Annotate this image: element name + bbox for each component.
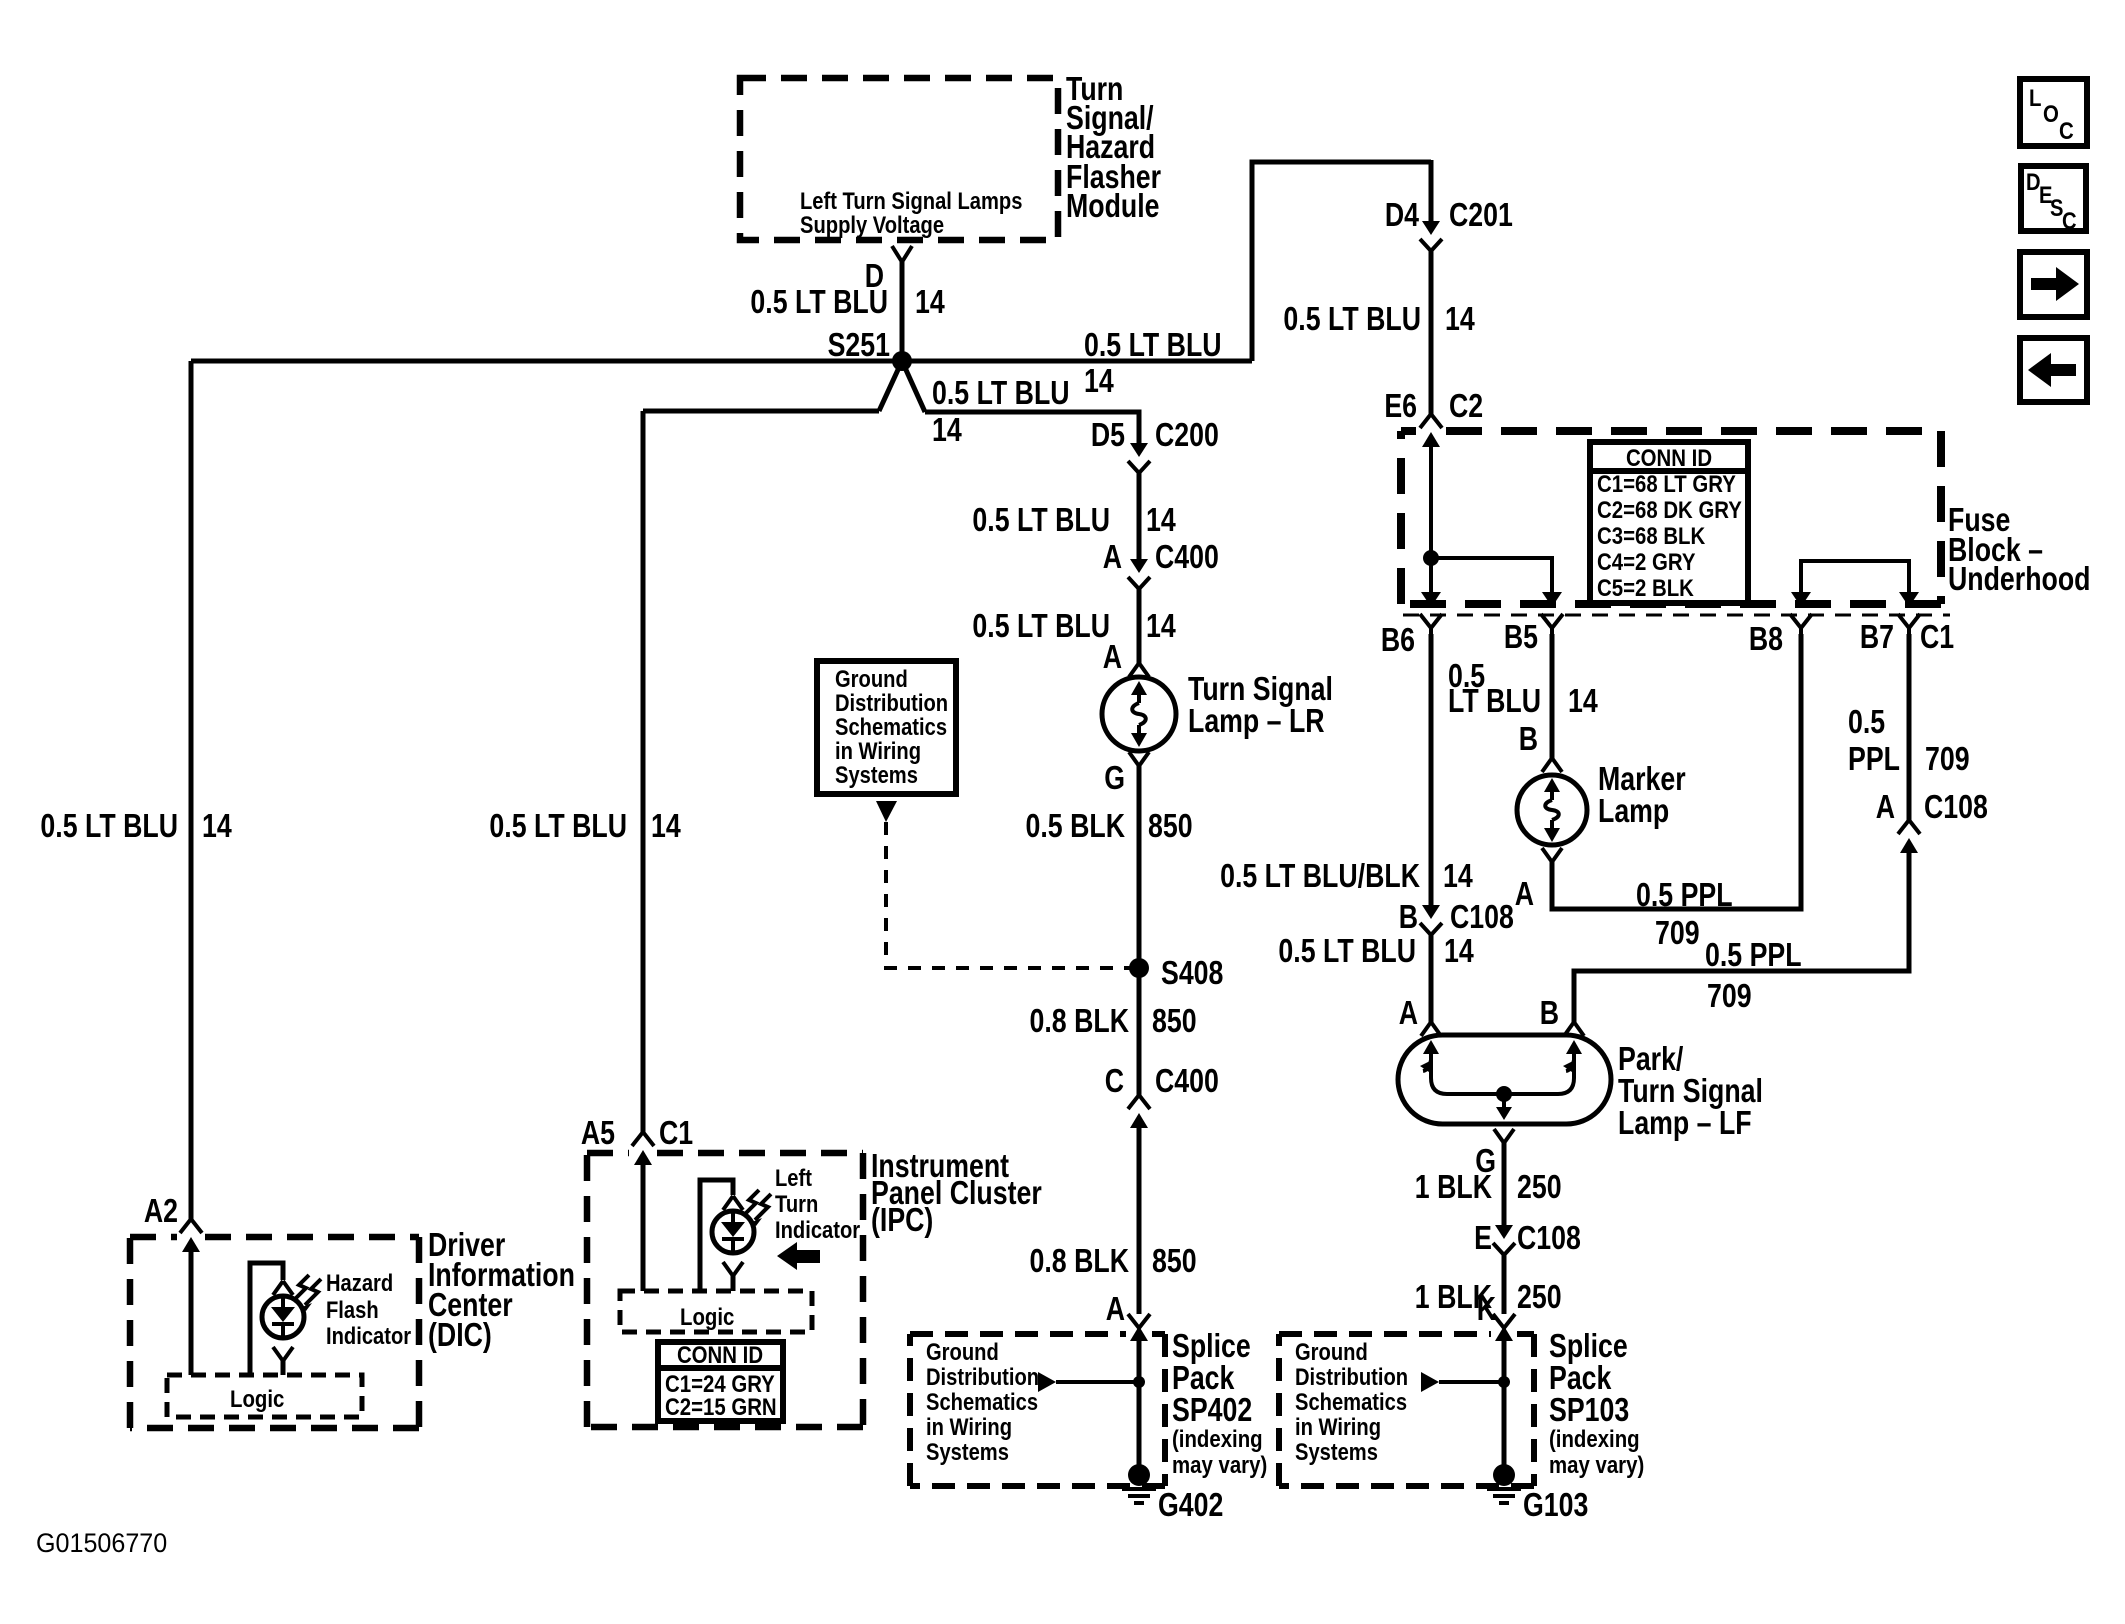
svg-text:G01506770: G01506770 <box>36 1527 167 1558</box>
svg-text:250: 250 <box>1517 1279 1562 1315</box>
svg-text:0.5 LT BLU/BLK: 0.5 LT BLU/BLK <box>1220 858 1420 894</box>
svg-text:B: B <box>1519 721 1538 757</box>
navigation icon LOC <box>2020 79 2087 146</box>
pin B5 chevron and label <box>1504 614 1563 656</box>
wire S251 right value label <box>1084 327 1222 399</box>
svg-text:SP402: SP402 <box>1172 1392 1252 1428</box>
svg-text:709: 709 <box>1925 741 1970 777</box>
svg-text:B6: B6 <box>1381 622 1415 658</box>
svg-text:Indicator: Indicator <box>775 1216 860 1243</box>
pin D of flasher module <box>865 246 912 295</box>
fuse block pin B7 exit arrow <box>1899 592 1919 607</box>
svg-text:G402: G402 <box>1158 1487 1223 1523</box>
DIC logic box <box>167 1375 362 1417</box>
svg-text:1 BLK: 1 BLK <box>1415 1169 1492 1205</box>
svg-text:C4=2 GRY: C4=2 GRY <box>1597 548 1696 575</box>
wire down to connector C201 <box>1429 160 1434 221</box>
svg-text:C: C <box>2062 207 2077 234</box>
wire C108A-parklamp value label <box>1705 937 1802 1014</box>
svg-text:Indicator: Indicator <box>326 1322 411 1349</box>
svg-text:Module: Module <box>1066 188 1160 224</box>
svg-text:C2=15 GRN: C2=15 GRN <box>665 1393 777 1420</box>
svg-text:A: A <box>1876 789 1895 825</box>
svg-text:Distribution: Distribution <box>926 1363 1039 1390</box>
svg-text:0.5 LT BLU: 0.5 LT BLU <box>750 284 888 320</box>
wire left vertical (to DIC A2) <box>189 361 194 1220</box>
svg-text:Turn Signal: Turn Signal <box>1188 671 1333 707</box>
svg-text:14: 14 <box>1445 301 1475 337</box>
splice pack SP103 pin K <box>1477 1291 1515 1341</box>
svg-text:14: 14 <box>1146 502 1176 538</box>
turn signal lamp LR <box>1102 677 1176 751</box>
svg-text:G: G <box>1104 760 1125 796</box>
turn signal / hazard flasher module box <box>740 78 1058 240</box>
left turn indicator lamp (IPC) <box>700 1180 771 1291</box>
svg-text:14: 14 <box>1146 608 1176 644</box>
svg-text:B: B <box>1540 995 1559 1031</box>
svg-text:B5: B5 <box>1504 619 1538 655</box>
wire value label <box>1026 808 1193 844</box>
wire C400 to turn signal lamp (0.5 LT BLU 14) <box>1137 589 1142 663</box>
left turn indicator label <box>775 1164 860 1243</box>
svg-text:Ground: Ground <box>1295 1338 1368 1365</box>
svg-text:S408: S408 <box>1161 955 1223 991</box>
ground distribution schematics box (mid) <box>817 661 956 794</box>
svg-text:0.5: 0.5 <box>1848 704 1885 740</box>
wire marker lamp A to B8 (0.5 PPL 709) <box>1552 634 1801 909</box>
svg-text:0.5 LT BLU: 0.5 LT BLU <box>40 808 178 844</box>
svg-text:A: A <box>1103 539 1122 575</box>
svg-text:(DIC): (DIC) <box>428 1317 492 1353</box>
wire marker-B8 value label <box>1636 877 1733 951</box>
fuse block internal wire to B5 <box>1431 558 1552 594</box>
svg-text:Turn Signal: Turn Signal <box>1618 1073 1763 1109</box>
turn signal lamp LR pin A <box>1103 639 1149 677</box>
svg-text:C1: C1 <box>659 1115 693 1151</box>
svg-text:0.5 PPL: 0.5 PPL <box>1705 937 1802 973</box>
svg-text:may vary): may vary) <box>1172 1451 1267 1478</box>
svg-text:14: 14 <box>915 284 945 320</box>
wire G to connector C108-E (1 BLK 250) <box>1502 1143 1507 1225</box>
svg-text:Systems: Systems <box>835 761 918 788</box>
svg-text:14: 14 <box>1444 933 1474 969</box>
wire C108-B to park lamp pin A (0.5 LT BLU 14) <box>1429 935 1434 1022</box>
marker lamp <box>1517 775 1587 845</box>
svg-text:LT BLU: LT BLU <box>1448 683 1541 719</box>
svg-text:250: 250 <box>1517 1169 1562 1205</box>
svg-text:Systems: Systems <box>1295 1438 1378 1465</box>
svg-text:C200: C200 <box>1155 417 1219 453</box>
svg-text:C5=2 BLK: C5=2 BLK <box>1597 574 1694 601</box>
svg-text:A: A <box>1103 639 1122 675</box>
navigation icon arrow right <box>2020 252 2087 317</box>
hazard flash indicator label <box>326 1269 411 1349</box>
wire value label <box>972 608 1176 644</box>
marker lamp pin A <box>1515 848 1562 913</box>
svg-text:0.5 LT BLU: 0.5 LT BLU <box>932 375 1070 411</box>
svg-text:Pack: Pack <box>1549 1360 1612 1396</box>
svg-text:Supply Voltage: Supply Voltage <box>800 211 944 238</box>
wire D (0.5 LT BLU 14) <box>900 261 905 361</box>
svg-text:B: B <box>1399 899 1418 935</box>
svg-text:14: 14 <box>651 808 681 844</box>
wire C200 to C400 (0.5 LT BLU 14) <box>1137 473 1142 559</box>
svg-text:C1: C1 <box>1920 619 1954 655</box>
svg-text:Splice: Splice <box>1549 1328 1628 1364</box>
svg-text:O: O <box>2043 100 2059 127</box>
svg-text:Underhood: Underhood <box>1948 561 2090 597</box>
svg-text:D5: D5 <box>1091 417 1125 453</box>
svg-text:Lamp – LR: Lamp – LR <box>1188 703 1325 739</box>
svg-text:B8: B8 <box>1749 621 1783 657</box>
svg-text:14: 14 <box>1568 683 1598 719</box>
park/turn signal lamp name label <box>1618 1041 1763 1141</box>
wire branch value label (0.5 LT BLU 14) <box>932 375 1070 448</box>
driver information center box <box>130 1234 177 1241</box>
svg-text:K: K <box>1477 1291 1497 1327</box>
svg-text:C3=68 BLK: C3=68 BLK <box>1597 522 1705 549</box>
wire S251 to riser <box>902 359 1252 364</box>
svg-text:C1=68 LT GRY: C1=68 LT GRY <box>1597 470 1736 497</box>
wire G value label <box>1415 1169 1562 1205</box>
wire C201-E6 value label <box>1283 301 1475 337</box>
park lamp pin B <box>1540 995 1584 1036</box>
svg-text:Lamp: Lamp <box>1598 793 1669 829</box>
wire C108B-parklamp value label <box>1278 933 1474 969</box>
navigation icon DESC <box>2021 166 2086 234</box>
turn signal lamp LR name label <box>1188 671 1333 739</box>
svg-text:C201: C201 <box>1449 197 1513 233</box>
SP103 name label <box>1549 1328 1644 1478</box>
svg-text:CONN ID: CONN ID <box>677 1341 763 1368</box>
IPC name label <box>871 1148 1042 1238</box>
pin B8 chevron and label <box>1749 614 1812 658</box>
wire IPC column value label <box>489 808 681 844</box>
wire A2 into DIC <box>189 1252 194 1375</box>
svg-text:(indexing: (indexing <box>1172 1425 1263 1452</box>
wire C201 to E6 (0.5 LT BLU 14) <box>1429 251 1434 414</box>
splice pack SP402 pin A <box>1106 1291 1150 1341</box>
svg-text:Schematics: Schematics <box>1295 1388 1407 1415</box>
wire branch horizontal to IPC column <box>643 409 879 414</box>
ground G103 <box>1487 1464 1588 1524</box>
svg-text:Hazard: Hazard <box>326 1269 393 1296</box>
svg-text:Pack: Pack <box>1172 1360 1235 1396</box>
connector A2 (DIC) <box>144 1193 202 1252</box>
connector C108 pin E <box>1474 1220 1581 1256</box>
svg-text:0.5 LT BLU: 0.5 LT BLU <box>972 608 1110 644</box>
flasher module name label <box>1066 71 1161 224</box>
svg-text:850: 850 <box>1152 1003 1197 1039</box>
wire branch horizontal to C200 <box>925 412 1139 443</box>
IPC pointer arrow <box>777 1242 820 1270</box>
svg-text:A5: A5 <box>581 1115 615 1151</box>
connector C1 pin A5 (IPC) <box>581 1115 693 1165</box>
conn id table (fuse block) <box>1590 442 1748 603</box>
park lamp pin A <box>1399 995 1441 1036</box>
svg-text:L: L <box>2029 84 2041 111</box>
svg-text:Schematics: Schematics <box>926 1388 1038 1415</box>
reference triangle under box <box>876 801 897 822</box>
svg-text:Distribution: Distribution <box>1295 1363 1408 1390</box>
dashed reference wire to S408 <box>886 822 1131 968</box>
svg-text:E: E <box>1474 1220 1492 1256</box>
navigation icon arrow left <box>2020 338 2087 402</box>
hazard flash indicator lamp (DIC) <box>250 1263 321 1375</box>
svg-text:G103: G103 <box>1523 1487 1588 1523</box>
svg-text:Turn: Turn <box>775 1190 818 1217</box>
connector C108 pin B <box>1399 899 1514 935</box>
svg-text:14: 14 <box>1084 363 1114 399</box>
wire value label <box>972 502 1176 538</box>
fuse block pin B6 exit arrow <box>1421 592 1441 607</box>
svg-text:C400: C400 <box>1155 1063 1219 1099</box>
connector C201 pin D4 <box>1385 197 1513 251</box>
fuse block internal junction <box>1423 550 1439 566</box>
svg-text:Systems: Systems <box>926 1438 1009 1465</box>
svg-text:E6: E6 <box>1384 388 1417 424</box>
svg-text:0.5 LT BLU: 0.5 LT BLU <box>1278 933 1416 969</box>
fuse block pin B8 exit arrow <box>1791 592 1811 607</box>
svg-text:Left: Left <box>775 1164 813 1191</box>
connector C400 pin C <box>1105 1063 1219 1128</box>
wire C400-C to splice pack SP402 (0.8 BLK 850) <box>1137 1128 1142 1314</box>
wire G to S408 (0.5 BLK 850) <box>1137 766 1142 968</box>
splice pack SP402 box <box>910 1331 1126 1337</box>
wire riser to top and right <box>1252 162 1431 361</box>
svg-text:Logic: Logic <box>680 1303 734 1330</box>
svg-text:Park/: Park/ <box>1618 1041 1684 1077</box>
splice S251 junction <box>892 351 912 371</box>
wire value label <box>1415 1279 1562 1315</box>
svg-text:0.5 LT BLU: 0.5 LT BLU <box>1283 301 1421 337</box>
svg-text:14: 14 <box>202 808 232 844</box>
svg-text:C: C <box>1105 1063 1124 1099</box>
svg-text:D4: D4 <box>1385 197 1419 233</box>
fuse block internal wire B8-B7 bridge <box>1801 561 1909 594</box>
svg-text:14: 14 <box>932 412 962 448</box>
svg-text:14: 14 <box>1443 858 1473 894</box>
splice pack SP103 box <box>1279 1331 1491 1337</box>
svg-text:(IPC): (IPC) <box>871 1202 933 1238</box>
fuse block name label <box>1948 502 2090 597</box>
svg-text:PPL: PPL <box>1848 741 1900 777</box>
svg-text:in Wiring: in Wiring <box>1295 1413 1381 1440</box>
svg-text:C400: C400 <box>1155 539 1219 575</box>
svg-text:may vary): may vary) <box>1549 1451 1644 1478</box>
svg-text:709: 709 <box>1655 915 1700 951</box>
svg-text:B7: B7 <box>1860 619 1894 655</box>
SP103 ground distribution note <box>1295 1338 1408 1465</box>
SP103 internal wire and reference triangle <box>1421 1341 1510 1470</box>
svg-text:A2: A2 <box>144 1193 178 1229</box>
SP402 internal wire and reference triangle <box>1038 1341 1145 1470</box>
wire C108-A to park lamp pin B (0.5 PPL 709) <box>1574 853 1909 1022</box>
svg-text:0.5 LT BLU: 0.5 LT BLU <box>489 808 627 844</box>
wire B6 down to connector C108-B <box>1429 634 1434 905</box>
pin B6 chevron and label <box>1381 614 1442 659</box>
wire B7 down (0.5 PPL 709) <box>1907 634 1912 820</box>
wire B5 value label (0.5 LT BLU 14) <box>1448 658 1598 719</box>
svg-text:Ground: Ground <box>926 1338 999 1365</box>
connector C108 pin A <box>1876 789 1988 853</box>
svg-text:0.8 BLK: 0.8 BLK <box>1030 1003 1130 1039</box>
wire S408 to connector C400-C (0.8 BLK 850) <box>1137 968 1142 1095</box>
svg-text:C2: C2 <box>1449 388 1483 424</box>
splice S408 junction <box>1129 958 1149 978</box>
wire left vertical value label (0.5 LT BLU 14) <box>40 808 232 844</box>
wire B7 value label <box>1848 704 1970 777</box>
svg-text:A: A <box>1399 995 1418 1031</box>
pin B7 chevron and label <box>1860 614 1954 656</box>
fuse block pin B5 exit arrow <box>1542 592 1562 607</box>
svg-text:0.5 PPL: 0.5 PPL <box>1636 877 1733 913</box>
svg-text:0.5 BLK: 0.5 BLK <box>1026 808 1126 844</box>
connector C400 pin A <box>1103 539 1219 589</box>
svg-text:CONN ID: CONN ID <box>1626 444 1712 471</box>
wire S251 branch diagonal left <box>879 361 902 411</box>
wire IPC column vertical (0.5 LT BLU 14) <box>641 411 646 1132</box>
marker lamp pin B <box>1519 721 1562 772</box>
park lamp pin G <box>1475 1129 1514 1180</box>
svg-text:(indexing: (indexing <box>1549 1425 1640 1452</box>
svg-text:C: C <box>2059 117 2074 144</box>
svg-text:850: 850 <box>1152 1243 1197 1279</box>
DIC name label <box>428 1227 575 1353</box>
svg-text:SP103: SP103 <box>1549 1392 1629 1428</box>
SP402 name label <box>1172 1328 1267 1478</box>
svg-text:0.5 LT BLU: 0.5 LT BLU <box>972 502 1110 538</box>
svg-text:850: 850 <box>1148 808 1193 844</box>
svg-text:A: A <box>1515 876 1534 912</box>
SP402 ground distribution note <box>926 1338 1039 1465</box>
wire value label <box>1030 1003 1197 1039</box>
svg-text:Marker: Marker <box>1598 761 1686 797</box>
IPC logic box <box>620 1291 812 1332</box>
wire A5 into IPC <box>641 1165 646 1291</box>
wire E6 into fuse block <box>1429 447 1433 594</box>
wire B6 value label (0.5 LT BLU/BLK 14) <box>1220 858 1473 894</box>
svg-text:A: A <box>1106 1291 1125 1327</box>
fuse block underhood box <box>1401 431 1950 615</box>
svg-text:709: 709 <box>1707 978 1752 1014</box>
turn signal lamp LR pin G <box>1104 752 1149 797</box>
svg-text:Flash: Flash <box>326 1296 379 1323</box>
park/turn signal lamp LF <box>1398 1035 1611 1124</box>
marker lamp name label <box>1598 761 1686 829</box>
wire B5 down to marker lamp <box>1550 634 1555 758</box>
svg-text:Lamp – LF: Lamp – LF <box>1618 1105 1752 1141</box>
wire S251 to left vertical <box>191 359 902 364</box>
ground G402 <box>1122 1464 1223 1524</box>
instrument panel cluster box <box>587 1150 629 1157</box>
connector C200 pin D5 <box>1091 417 1219 473</box>
wire S251 branch diagonal right <box>902 361 925 412</box>
svg-text:Logic: Logic <box>230 1385 284 1412</box>
wire D value label <box>750 284 945 320</box>
wire C108-E to splice pack SP103 (1 BLK 250) <box>1502 1255 1507 1314</box>
svg-text:0.5 LT BLU: 0.5 LT BLU <box>1084 327 1222 363</box>
svg-text:C108: C108 <box>1517 1220 1581 1256</box>
svg-text:C108: C108 <box>1924 789 1988 825</box>
svg-text:S251: S251 <box>828 327 890 363</box>
svg-text:C108: C108 <box>1450 899 1514 935</box>
svg-text:in Wiring: in Wiring <box>926 1413 1012 1440</box>
wire value label <box>1030 1243 1197 1279</box>
svg-text:0.8 BLK: 0.8 BLK <box>1030 1243 1130 1279</box>
svg-text:Splice: Splice <box>1172 1328 1251 1364</box>
svg-text:C2=68 DK GRY: C2=68 DK GRY <box>1597 496 1742 523</box>
connector C2 pin E6 (into fuse block) <box>1384 388 1483 447</box>
conn id table (IPC) <box>658 1341 783 1421</box>
